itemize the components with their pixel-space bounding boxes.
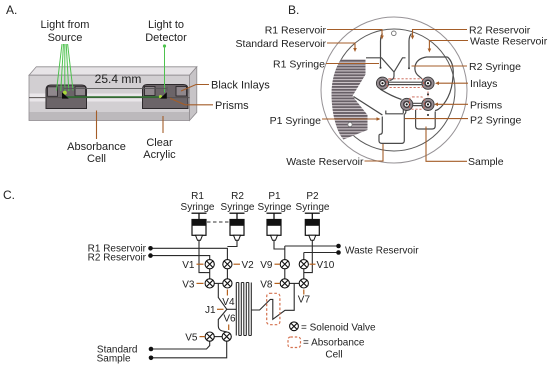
wire V8-V7 bridge — [289, 282, 299, 284]
svg-text:Cell: Cell — [87, 153, 106, 165]
light beam in absorbance cell — [66, 96, 162, 98]
svg-text:R1 Syringe: R1 Syringe — [273, 59, 325, 71]
svg-text:V6: V6 — [223, 314, 236, 325]
label V5 — [185, 333, 205, 344]
svg-text:V1: V1 — [182, 260, 195, 271]
label P1 Syringe — [270, 115, 322, 127]
dashed absorbance cell outline bottom — [410, 97, 425, 109]
label V9 — [260, 260, 280, 271]
wire junction R1 to V1V3 — [205, 272, 210, 274]
inlay BL — [401, 98, 413, 110]
chip channels — [354, 34, 454, 144]
svg-text:= Solenoid Valve: = Solenoid Valve — [301, 322, 376, 333]
wire R2 chamber right curve — [435, 57, 453, 111]
node dot R2 reservoir — [148, 253, 153, 258]
label Waste Reservoir top — [470, 36, 548, 48]
dashed link TR-BR — [427, 92, 429, 98]
svg-text:R1 Reservoir: R1 Reservoir — [265, 25, 327, 37]
wire V10 top drop — [303, 253, 305, 260]
label P2 Syringe — [470, 115, 522, 127]
chip outer circle — [321, 17, 467, 163]
svg-text:C.: C. — [3, 188, 15, 202]
wire R2 port stub — [409, 34, 412, 69]
wire TL-BL link — [380, 89, 402, 100]
valve V7 — [299, 279, 308, 288]
leader R1 Syringe — [326, 63, 379, 65]
valve V10 — [299, 260, 308, 269]
acrylic block top face — [29, 67, 197, 75]
label Prisms — [215, 100, 249, 112]
svg-text:Sample: Sample — [97, 354, 131, 365]
dimension line 25.4 mm — [64, 87, 167, 91]
leader P2 Syringe — [405, 118, 468, 120]
svg-text:R1: R1 — [191, 191, 204, 202]
chip inner circle — [333, 29, 455, 151]
legend label solenoid valve — [301, 322, 376, 333]
svg-text:Sample: Sample — [468, 156, 504, 168]
wire waste chamber top edge — [386, 111, 403, 114]
svg-text:Clear: Clear — [146, 137, 173, 149]
left inlay window right — [75, 87, 86, 96]
valve V1 — [205, 260, 214, 269]
node dot left stub end — [380, 67, 382, 69]
black inlay left — [46, 85, 87, 109]
prism left — [62, 92, 69, 98]
svg-text:V9: V9 — [260, 260, 273, 271]
svg-text:V10: V10 — [317, 260, 335, 271]
wire J1 to mixer — [227, 308, 237, 310]
label J1 — [205, 305, 224, 316]
wire R1 syringe feed — [199, 240, 205, 272]
label Waste Reservoir bottom — [286, 156, 364, 168]
wire R2 syringe feed — [227, 240, 237, 246]
svg-text:Acrylic: Acrylic — [143, 149, 176, 161]
node dot R1 reservoir — [148, 246, 153, 251]
wire V funnel — [366, 58, 406, 72]
leader Waste Reservoir bottom — [365, 144, 384, 161]
node dot between TR-BR — [427, 93, 429, 95]
leader Prisms — [434, 103, 468, 107]
wire V2-V4 link — [226, 269, 228, 279]
svg-text:Prisms: Prisms — [215, 100, 249, 112]
svg-text:R2 Reservoir: R2 Reservoir — [88, 253, 147, 264]
label P1 Syringe — [258, 191, 292, 213]
label R1 Reservoir C — [88, 244, 147, 255]
wire waste line A — [285, 245, 339, 247]
label V3 — [182, 279, 203, 290]
beam glow left — [63, 91, 67, 95]
node C panel letter — [3, 188, 15, 202]
leader Black Inlays — [181, 85, 209, 92]
wire P1 syringe feed — [274, 240, 285, 249]
svg-text:Black Inlays: Black Inlays — [211, 80, 270, 92]
svg-text:Detector: Detector — [145, 32, 187, 44]
svg-text:R2 Syringe: R2 Syringe — [469, 61, 521, 73]
label Prisms — [470, 99, 502, 111]
valve V6 — [222, 332, 231, 341]
leader R2 Reservoir — [411, 30, 467, 40]
leader R1 Reservoir — [327, 30, 384, 40]
svg-text:25.4 mm: 25.4 mm — [95, 72, 142, 86]
svg-text:Cell: Cell — [325, 350, 342, 361]
label P2 Syringe — [296, 191, 330, 213]
inlay BR — [422, 98, 434, 110]
wire sample pocket — [416, 110, 436, 129]
leader Absorbance Cell — [96, 111, 98, 140]
svg-text:= Absorbance: = Absorbance — [303, 338, 365, 349]
acrylic block right face — [190, 67, 197, 121]
wire R1 port stub — [381, 34, 383, 68]
svg-text:Light to: Light to — [148, 19, 184, 31]
label V10 — [310, 260, 335, 271]
light to detector ray — [163, 44, 166, 92]
valve V2 — [223, 260, 232, 269]
wire funnel drop to inlay — [390, 72, 395, 81]
svg-text:V4: V4 — [222, 297, 235, 308]
svg-text:Syringe: Syringe — [221, 202, 255, 213]
alignment hole top — [392, 31, 397, 36]
leader Waste Reservoir top — [428, 41, 468, 53]
inlay TR — [422, 77, 434, 89]
label R1 Syringe — [273, 59, 325, 71]
wire V5-V6 bridge — [214, 336, 222, 338]
valve V5 — [205, 332, 214, 341]
svg-text:P1 Syringe: P1 Syringe — [270, 115, 322, 127]
node A panel letter — [6, 3, 17, 17]
value label 25.4 mm — [95, 72, 142, 86]
syringe P1 — [267, 213, 282, 240]
alignment hole serpentine — [348, 122, 352, 126]
prism right — [160, 92, 167, 98]
black inlay right — [143, 85, 189, 109]
dashed absorbance cell outline top — [387, 79, 424, 88]
wire absorbance channel bottom pair — [412, 103, 422, 105]
valve V4 — [223, 279, 232, 288]
light rays from source — [57, 44, 74, 92]
wire V10-V7 link — [303, 269, 305, 279]
svg-text:Syringe: Syringe — [258, 202, 292, 213]
left inlay window left — [48, 87, 58, 97]
wire BL drop channel — [403, 109, 406, 115]
block seam line — [29, 97, 190, 99]
legend label absorbance cell — [303, 338, 365, 361]
svg-text:B.: B. — [288, 3, 299, 17]
wire R2 chamber left — [415, 57, 448, 79]
label Sample — [468, 156, 504, 168]
label R2 Syringe — [221, 191, 255, 213]
legend solenoid valve symbol — [290, 322, 299, 331]
syringe R2 — [230, 213, 245, 240]
svg-text:V2: V2 — [242, 260, 255, 271]
wire V1-V3 link — [209, 269, 211, 279]
valve V8 — [280, 279, 289, 288]
wire sample line — [151, 341, 227, 357]
svg-text:Standard Reservoir: Standard Reservoir — [236, 38, 327, 50]
wire syringe coupling dashed — [207, 221, 229, 223]
node dot right stub end — [408, 67, 410, 69]
wire R2 reservoir line — [151, 256, 210, 260]
svg-text:Syringe: Syringe — [296, 202, 330, 213]
svg-text:Waste Reservoir: Waste Reservoir — [470, 36, 548, 48]
label Standard Reservoir — [236, 38, 327, 50]
leader Sample — [426, 127, 467, 162]
label V4 — [222, 290, 235, 309]
svg-text:P1: P1 — [268, 191, 281, 202]
right inlay window left — [145, 87, 156, 96]
valve V9 — [280, 260, 289, 269]
node dot waste B — [336, 250, 341, 255]
mixer serpentine C — [236, 283, 251, 336]
node dot sample — [149, 356, 154, 361]
wire waste line B — [304, 252, 339, 254]
svg-text:Syringe: Syringe — [181, 202, 215, 213]
label Waste Reservoir C — [345, 246, 419, 257]
wire absorbance channel top pair — [389, 82, 422, 84]
leader P1 Syringe — [322, 117, 381, 121]
node dot below BR — [427, 114, 429, 116]
svg-text:Inlays: Inlays — [470, 78, 497, 90]
label Light to Detector — [145, 19, 187, 44]
serpentine channel block — [332, 60, 368, 140]
svg-text:Prisms: Prisms — [470, 99, 502, 111]
wire serpentine to chamber diagonal — [354, 97, 383, 116]
wire V3-V4 bridge — [214, 282, 223, 284]
syringe P2 — [305, 213, 320, 240]
valve V3 — [205, 279, 214, 288]
svg-text:R2: R2 — [231, 191, 244, 202]
wire standard line — [151, 341, 210, 349]
svg-text:J1: J1 — [205, 305, 216, 316]
node B panel letter — [288, 3, 299, 17]
acrylic block front face — [29, 75, 190, 120]
svg-text:Absorbance: Absorbance — [67, 141, 126, 153]
node dot standard — [149, 347, 154, 352]
svg-text:P2: P2 — [306, 191, 319, 202]
label Standard — [97, 345, 138, 356]
label V7 — [298, 290, 311, 306]
syringe R1 — [192, 213, 207, 240]
label Clear Acrylic — [143, 137, 176, 161]
leader Prisms — [170, 98, 213, 105]
label R2 Syringe — [469, 61, 521, 73]
right inlay window right — [176, 87, 187, 97]
label R2 Reservoir C — [88, 253, 147, 264]
svg-text:Waste Reservoir: Waste Reservoir — [345, 246, 419, 257]
label R2 Reservoir — [469, 25, 531, 37]
legend absorbance cell symbol — [288, 337, 301, 348]
svg-text:P2 Syringe: P2 Syringe — [470, 115, 522, 127]
label Absorbance Cell — [67, 141, 126, 165]
label R1 Syringe — [181, 191, 215, 213]
wires panel C — [151, 240, 339, 357]
svg-text:V8: V8 — [260, 279, 273, 290]
label R1 Reservoir — [265, 25, 327, 37]
label Inlays — [470, 78, 497, 90]
leader Standard Reservoir — [327, 43, 357, 52]
beam glow right — [159, 95, 162, 98]
label Sample C — [97, 354, 131, 365]
wire P2 syringe feed — [304, 240, 313, 272]
wire V9 top drop — [284, 246, 286, 260]
absorbance cell dashed box — [267, 293, 280, 324]
label V1 — [182, 260, 203, 271]
node dot waste A — [336, 244, 341, 249]
wire V9-V8 link — [284, 269, 286, 279]
svg-text:V3: V3 — [182, 279, 195, 290]
label Light from Source — [41, 19, 90, 44]
wire R1 reservoir line — [151, 248, 228, 259]
leader Inlays — [435, 81, 468, 85]
inlay TL — [376, 77, 388, 89]
leader R2 Syringe — [412, 65, 468, 67]
label Black Inlays — [211, 80, 270, 92]
svg-text:Waste Reservoir: Waste Reservoir — [286, 156, 364, 168]
label V6 — [223, 314, 236, 331]
svg-text:A.: A. — [6, 3, 17, 17]
leader Clear Acrylic — [162, 116, 164, 133]
wire J1 funnel — [218, 283, 227, 332]
label V2 — [234, 260, 255, 271]
wire mixer exit to cell — [251, 283, 294, 319]
label V8 — [260, 279, 280, 290]
svg-text:V5: V5 — [185, 333, 198, 344]
svg-text:Light from: Light from — [41, 19, 90, 31]
svg-text:Source: Source — [48, 32, 83, 44]
wire waste chamber — [379, 114, 404, 143]
svg-text:V7: V7 — [298, 295, 311, 306]
